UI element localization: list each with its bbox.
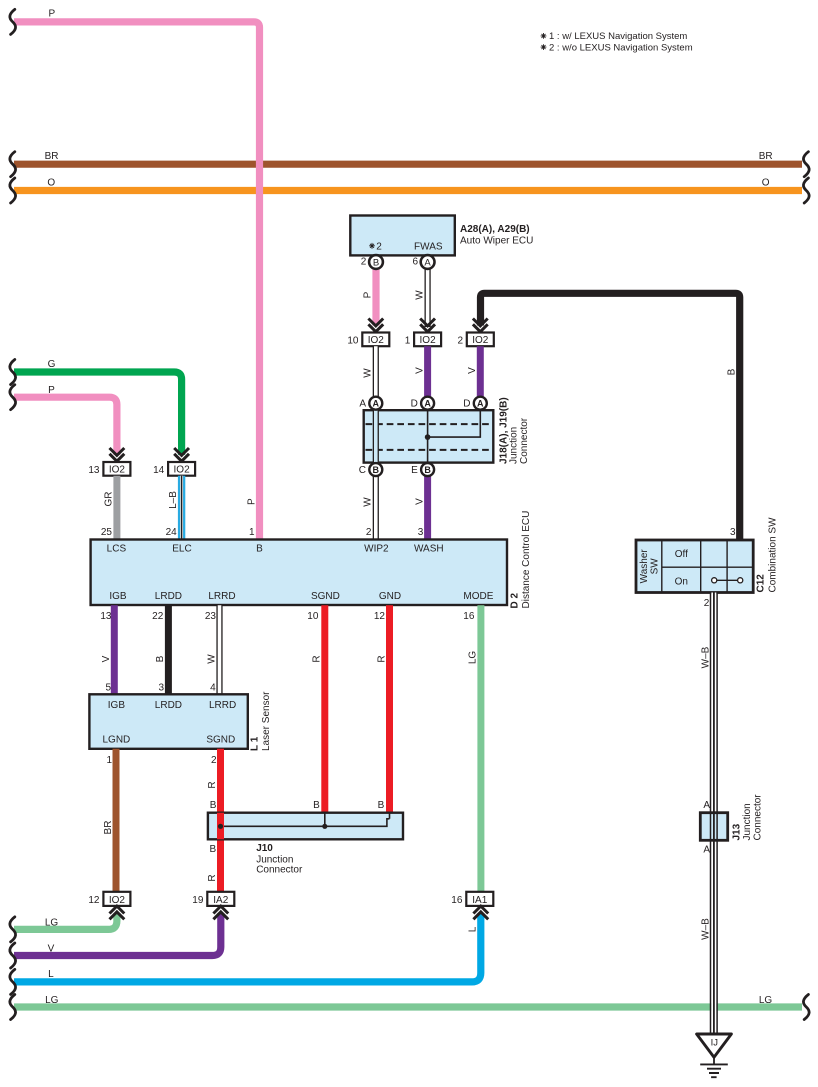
svg-text:IO2: IO2: [109, 465, 126, 476]
svg-text:B: B: [256, 544, 263, 555]
svg-text:IA1: IA1: [472, 895, 487, 906]
connector 10 IO2: [347, 333, 389, 347]
junction connector J13 box: [700, 813, 727, 841]
svg-text:IO2: IO2: [174, 465, 191, 476]
wire L bottom to 16 IA1: [14, 913, 481, 982]
junction connector J18/J19 box: [364, 410, 494, 462]
svg-text:A: A: [703, 844, 710, 855]
svg-text:BR: BR: [103, 821, 114, 835]
wire R laser SGND to 19 IA2: [217, 749, 224, 892]
svg-text:IGB: IGB: [108, 700, 126, 711]
svg-text:12: 12: [374, 611, 386, 622]
svg-text:6: 6: [412, 257, 418, 268]
svg-text:LRDD: LRDD: [155, 700, 182, 711]
svg-text:V: V: [414, 498, 425, 505]
svg-text:W: W: [206, 654, 217, 664]
svg-text:LRDD: LRDD: [155, 591, 182, 602]
svg-text:A: A: [373, 399, 380, 409]
svg-text:IO2: IO2: [472, 335, 489, 346]
arrow into 16 IA1 (up): [473, 906, 488, 919]
svg-text:LRRD: LRRD: [208, 591, 235, 602]
break symbol P top left: [10, 9, 16, 34]
break symbol LG1: [10, 917, 16, 942]
Laser Sensor box L1: [89, 694, 247, 749]
wire L-B from 14 IO2 to ECU ELC pin 24: [178, 476, 185, 540]
svg-text:R: R: [207, 874, 218, 881]
svg-text:10: 10: [347, 335, 359, 346]
wire V ECU IGB to laser IGB: [111, 605, 118, 694]
svg-text:R: R: [207, 781, 218, 788]
arrow into 12 IO2 (up): [110, 906, 125, 919]
svg-text:LG: LG: [45, 918, 59, 929]
svg-text:2: 2: [211, 755, 217, 766]
svg-text:B: B: [373, 465, 380, 475]
svg-text:W: W: [363, 368, 374, 378]
wire R ECU SGND to J10: [321, 605, 328, 813]
arrow into 14 IO2: [174, 448, 189, 461]
wire V bottom to 19 IA2: [14, 913, 221, 955]
laser top pin numbers: [105, 683, 216, 694]
svg-text:24: 24: [166, 527, 178, 538]
svg-text:W–B: W–B: [701, 918, 712, 940]
svg-text:2: 2: [704, 598, 710, 609]
svg-text:V: V: [48, 943, 55, 954]
arrow into 13 IO2: [110, 448, 125, 461]
junction pin circle B col1: [359, 463, 383, 476]
svg-text:GND: GND: [379, 591, 401, 602]
svg-text:LCS: LCS: [107, 544, 127, 555]
svg-text:SGND: SGND: [311, 591, 340, 602]
Auto Wiper ECU box A28/A29: [350, 216, 455, 256]
connector 1 IO2: [405, 333, 441, 347]
wire BR horizontal: [14, 161, 802, 168]
break symbol P second left: [10, 385, 16, 410]
wire GR from 13 IO2 to ECU LCS pin 25: [113, 476, 120, 540]
break symbol BR right: [803, 152, 809, 177]
wire LG bottom to 12 IO2: [14, 913, 117, 929]
junction pin circle B col2: [411, 463, 434, 476]
wire LG ECU MODE to 16 IA1: [477, 605, 484, 892]
svg-text:L 1: L 1: [250, 736, 261, 751]
svg-text:LG: LG: [468, 651, 479, 665]
svg-text:A: A: [424, 258, 431, 269]
svg-text:GR: GR: [104, 492, 115, 507]
svg-text:P: P: [246, 498, 257, 505]
svg-text:SW: SW: [650, 558, 661, 575]
svg-text:IO2: IO2: [109, 895, 126, 906]
svg-text:W: W: [363, 497, 374, 507]
svg-text:2: 2: [366, 527, 372, 538]
break symbol LG2 left: [10, 995, 16, 1020]
wire G (green, to 14 IO2): [14, 372, 182, 455]
Distance Control ECU box D2: [91, 540, 507, 606]
red wire through J10: [217, 813, 224, 840]
svg-text:IJ: IJ: [711, 1037, 719, 1048]
svg-text:Combination SW: Combination SW: [768, 517, 779, 593]
wire P from pin B to 10 IO2: [372, 268, 379, 326]
connector 12 IO2: [88, 892, 130, 906]
svg-text:4: 4: [210, 683, 216, 694]
svg-text:B: B: [424, 465, 431, 475]
svg-text:R: R: [376, 655, 387, 662]
svg-text:1 : w/ LEXUS Navigation System: 1 : w/ LEXUS Navigation System: [549, 31, 687, 42]
svg-text:5: 5: [105, 683, 111, 694]
combination switch C12 box: [636, 540, 753, 593]
svg-text:FWAS: FWAS: [414, 241, 443, 252]
svg-text:14: 14: [153, 465, 165, 476]
wire B ECU LRDD to laser LRDD: [165, 605, 172, 694]
wire B black (to 2 IO2 and C12 pin 3): [481, 293, 740, 540]
wire P second (pink, to 13 IO2): [14, 397, 117, 455]
laser bottom pin numbers: [106, 755, 217, 766]
svg-text:IA2: IA2: [213, 895, 228, 906]
svg-text:23: 23: [205, 611, 217, 622]
junction pin circle A col2: [411, 397, 435, 410]
svg-text:B: B: [155, 655, 166, 662]
svg-text:Distance Control ECU: Distance Control ECU: [521, 511, 532, 609]
svg-text:2 : w/o LEXUS Navigation Syste: 2 : w/o LEXUS Navigation System: [549, 42, 693, 53]
arrow into 2 IO2: [473, 319, 488, 332]
connector 13 IO2: [88, 462, 130, 476]
svg-text:V: V: [414, 367, 425, 374]
svg-text:On: On: [675, 576, 688, 587]
arrow into 1 IO2: [420, 319, 435, 332]
junction pin circle A col1: [359, 397, 382, 410]
junction internal wire col2: [427, 409, 429, 464]
svg-text:19: 19: [192, 895, 204, 906]
svg-text:2: 2: [376, 241, 382, 252]
wire W ECU LRRD to laser LRRD: [216, 605, 222, 694]
svg-text:12: 12: [88, 895, 100, 906]
svg-text:Connector: Connector: [519, 417, 530, 464]
svg-text:MODE: MODE: [463, 591, 493, 602]
wire LG bottom full: [14, 1003, 802, 1010]
connector 19 IA2: [192, 892, 234, 906]
svg-text:O: O: [762, 178, 770, 189]
svg-text:L: L: [468, 926, 479, 932]
svg-text:O: O: [47, 178, 55, 189]
svg-text:A28(A), A29(B): A28(A), A29(B): [460, 224, 530, 235]
note text top right: [541, 31, 693, 53]
wire O horizontal: [14, 187, 802, 194]
junction internal wire col3: [428, 409, 481, 437]
ECU bottom pin numbers: [100, 611, 474, 622]
svg-text:LG: LG: [759, 995, 773, 1006]
wire BR laser LGND to 12 IO2: [113, 749, 120, 892]
svg-text:B: B: [313, 800, 320, 811]
svg-text:B: B: [210, 800, 217, 811]
connector 16 IA1: [451, 892, 493, 906]
svg-text:SGND: SGND: [206, 735, 235, 746]
wire W-B black lines: [711, 593, 718, 1035]
svg-text:Connector: Connector: [256, 865, 303, 876]
ground symbol IJ: [697, 1034, 732, 1077]
svg-text:V: V: [467, 367, 478, 374]
svg-text:BR: BR: [45, 151, 59, 162]
svg-text:2: 2: [457, 335, 463, 346]
junction internal W pass-through: [373, 409, 379, 464]
svg-text:L: L: [48, 969, 54, 980]
break symbol V bottom: [10, 943, 16, 968]
break symbol O right: [803, 178, 809, 203]
wire V from 2 IO2 to junction: [477, 346, 484, 397]
svg-text:E: E: [411, 465, 418, 476]
pin 2 circle B of auto wiper ECU: [361, 255, 383, 269]
svg-text:3: 3: [418, 527, 424, 538]
svg-text:A: A: [359, 399, 366, 410]
svg-text:13: 13: [100, 611, 112, 622]
svg-text:Junction: Junction: [509, 427, 520, 464]
svg-text:B: B: [210, 844, 217, 855]
svg-text:P: P: [48, 385, 55, 396]
svg-text:LG: LG: [45, 995, 59, 1006]
svg-text:L–B: L–B: [168, 491, 179, 509]
svg-text:P: P: [363, 291, 374, 298]
svg-text:1: 1: [249, 527, 255, 538]
svg-text:C: C: [359, 465, 366, 476]
svg-text:3: 3: [158, 683, 164, 694]
svg-text:R: R: [312, 655, 323, 662]
wire P top (pink, to ECU pin 1): [14, 22, 260, 540]
svg-text:D: D: [411, 399, 418, 410]
break symbol O left: [10, 178, 16, 203]
svg-text:IGB: IGB: [109, 591, 127, 602]
svg-text:V: V: [101, 655, 112, 662]
svg-text:A: A: [424, 399, 431, 409]
wire W from 10 IO2 to ECU WIP2 pin 2: [373, 346, 379, 539]
svg-text:J10: J10: [256, 843, 273, 854]
switch contacts C12: [712, 578, 743, 583]
svg-text:IO2: IO2: [368, 335, 385, 346]
svg-text:Connector: Connector: [753, 794, 764, 841]
svg-text:J13: J13: [732, 823, 743, 840]
junction pin circle A col3: [463, 397, 487, 410]
svg-text:D 2: D 2: [510, 593, 521, 609]
svg-text:B: B: [373, 258, 379, 269]
svg-text:1: 1: [106, 755, 112, 766]
svg-text:Junction: Junction: [742, 803, 753, 840]
svg-text:C12: C12: [756, 574, 767, 593]
svg-text:1: 1: [405, 335, 411, 346]
svg-text:10: 10: [307, 611, 319, 622]
svg-text:B: B: [378, 800, 385, 811]
svg-text:Laser Sensor: Laser Sensor: [261, 691, 272, 751]
arrow into 19 IA2 (up): [213, 906, 228, 919]
svg-text:16: 16: [451, 895, 463, 906]
svg-text:B: B: [727, 368, 738, 375]
svg-text:LGND: LGND: [103, 735, 131, 746]
svg-text:W–B: W–B: [701, 646, 712, 668]
junction dot on red wire: [218, 824, 223, 829]
svg-text:A: A: [477, 399, 484, 409]
svg-text:Auto Wiper ECU: Auto Wiper ECU: [460, 236, 533, 247]
svg-text:Washer: Washer: [639, 549, 650, 584]
connector 14 IO2: [153, 462, 195, 476]
wire V from junction to ECU WASH pin 3: [424, 476, 431, 540]
connector 2 IO2: [457, 333, 493, 347]
svg-text:ELC: ELC: [172, 544, 191, 555]
svg-text:BR: BR: [759, 151, 773, 162]
break symbol BR left: [10, 152, 16, 177]
svg-text:Off: Off: [675, 549, 688, 560]
wire W from pin A to 1 IO2: [425, 268, 431, 327]
junction dot: [425, 434, 431, 440]
ECU top pin numbers: [101, 527, 424, 538]
break symbol G left: [10, 360, 16, 385]
svg-text:16: 16: [463, 611, 475, 622]
svg-text:3: 3: [730, 527, 736, 538]
svg-text:WIP2: WIP2: [364, 544, 389, 555]
svg-text:W: W: [414, 290, 425, 300]
break symbol L bottom: [10, 969, 16, 994]
junction connector J10 box: [208, 813, 403, 840]
arrow into 10 IO2: [368, 319, 383, 332]
pin 6 circle A of auto wiper ECU: [412, 255, 434, 269]
svg-text:25: 25: [101, 527, 113, 538]
svg-text:WASH: WASH: [414, 544, 444, 555]
break symbol LG2 right: [803, 995, 809, 1020]
svg-text:A: A: [703, 800, 710, 811]
svg-text:G: G: [48, 359, 56, 370]
svg-text:22: 22: [152, 611, 164, 622]
wire V from 1 IO2 to junction: [424, 346, 431, 397]
svg-text:D: D: [463, 399, 470, 410]
wire R ECU GND to J10: [386, 605, 393, 813]
wire W-B C12 to ground (white fill): [711, 593, 716, 1035]
svg-text:P: P: [48, 9, 55, 20]
svg-text:13: 13: [88, 465, 100, 476]
svg-text:IO2: IO2: [420, 335, 437, 346]
svg-text:LRRD: LRRD: [209, 700, 236, 711]
svg-text:2: 2: [361, 257, 367, 268]
